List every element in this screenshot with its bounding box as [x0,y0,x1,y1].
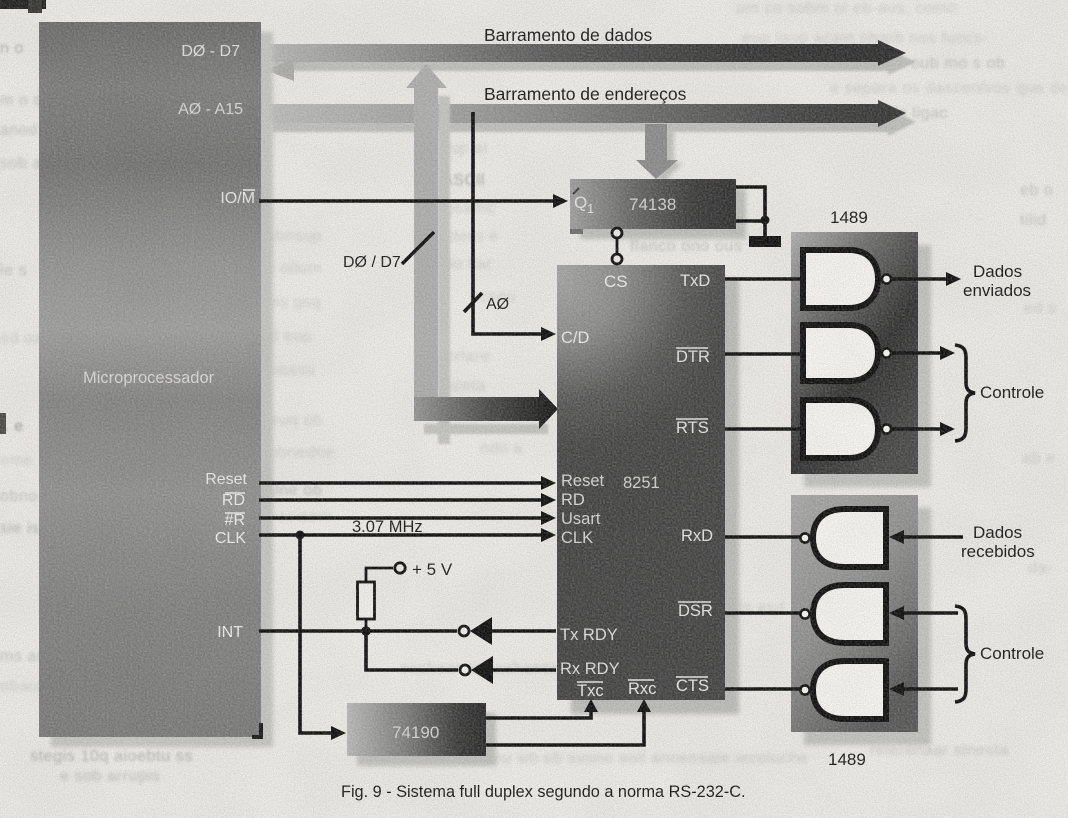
74138 ground wiring [736,187,770,237]
svg-text:+ 5 V: + 5 V [412,560,453,579]
svg-text:8251: 8251 [623,474,660,492]
svg-text:RD: RD [222,492,245,509]
svg-text:RD: RD [561,491,585,509]
wire 74190 to Txc [486,699,598,718]
74190 part number [392,723,439,742]
svg-text:74138: 74138 [629,195,676,214]
D0/D7 bus arm into 8251 with right arrowhead [414,389,558,429]
microprocessor pin label A0-A15 [178,101,243,118]
bus: Barramento de enderecos [262,100,906,127]
74138 part number [629,195,676,214]
svg-text:Txc: Txc [577,682,604,700]
svg-text:1489: 1489 [830,208,868,227]
svg-text:Dados: Dados [973,523,1022,542]
address-bus down arrow into 74138 [636,124,678,179]
svg-text:CS: CS [604,272,628,291]
74190 block shadow [357,713,496,766]
8251 pin label TxD [680,272,710,290]
microprocessor pin label D0-D7 [181,43,240,60]
resistor pull-up [358,582,375,619]
svg-text:3.07 MHz: 3.07 MHz [352,518,423,536]
svg-text:AØ: AØ [486,296,509,313]
label Barramento de enderecos [484,84,687,104]
74138 block shadow [580,189,746,239]
microprocessor pin label RD [222,492,245,509]
figure caption [341,783,746,801]
label 1489 top [830,208,868,227]
svg-text:#R: #R [225,512,245,529]
svg-text:enviados: enviados [963,281,1031,300]
data bus left arrowhead into microprocessor [265,59,294,81]
label Barramento de dados [484,25,653,45]
svg-text:Reset: Reset [561,472,605,490]
wire A0 from address bus to 8251 C/D [473,112,556,341]
receiver gate CTS [800,661,886,719]
microprocessor title [83,369,215,387]
svg-text:CTS: CTS [676,677,709,695]
decoder U-74138 [570,179,736,234]
wire CLK 3.07 MHz [259,518,556,542]
driver gate DTR [803,325,891,381]
wire CLK to 74190 [300,535,346,740]
8251 pin label RD [561,491,585,509]
8251 pin label RxD [681,527,713,545]
driver gate TxD [803,250,891,308]
svg-text:IO/M: IO/M [220,190,255,207]
ground bar [749,236,781,247]
8251 pin label CS [604,272,628,291]
svg-text:Barramento de endereços: Barramento de endereços [484,84,687,104]
wire Dados recebidos into RxD gate [889,530,963,544]
svg-text:Fig. 9 - Sistema full duplex s: Fig. 9 - Sistema full duplex segundo a n… [341,783,746,801]
line driver block 1489 (top) [791,232,918,474]
wire DTR out to brace [891,346,955,360]
svg-text:Rx RDY: Rx RDY [560,660,620,678]
1489 top block shadow [804,245,931,487]
driver gate RTS [803,400,891,458]
wire INT / Tx RDY line [259,629,457,633]
8251 pin label C/D [561,329,590,347]
svg-text:RxD: RxD [681,527,713,545]
8251 pin label Rx RDY [560,660,620,678]
svg-text:recebidos: recebidos [961,542,1035,561]
label Controle bottom [980,644,1044,663]
junction on CLK wire [296,531,305,540]
inverter on Rx RDY [460,656,556,684]
svg-text:TxD: TxD [680,272,710,290]
svg-text:Tx RDY: Tx RDY [560,626,618,644]
microprocessor block [39,22,261,737]
receiver gate DSR [800,585,886,643]
8251 pin label Txc [577,682,604,700]
1489 bottom block shadow [804,508,931,745]
pull-up +5V terminal [366,560,453,582]
svg-text:INT: INT [217,624,243,641]
svg-text:Q: Q [574,193,587,212]
junction dot at resistor bottom [361,619,371,636]
label Controle top [980,383,1044,402]
CS link circles between 74138 and 8251 [612,228,622,264]
svg-text:Barramento de dados: Barramento de dados [484,25,653,45]
left edge tick [0,413,6,434]
svg-text:AØ - A15: AØ - A15 [178,101,243,118]
8251 pin label Usart [561,510,601,528]
svg-text:Usart: Usart [561,510,601,528]
label 1489 bottom [828,750,866,769]
8251 pin label DSR [678,602,713,620]
svg-text:CLK: CLK [215,530,246,547]
74138 pin label Q1 [574,193,594,216]
wire TxD to gate [725,277,801,281]
line receiver block 1489 (bottom) [791,495,918,732]
USART U-8251 [557,265,725,700]
label Dados enviados [963,262,1031,300]
microprocessor bottom-right corner mark [252,723,263,737]
microprocessor pin label Reset [205,471,247,488]
wire Rx RDY branch [366,631,458,670]
receiver gate RxD [800,509,886,567]
svg-text:1489: 1489 [828,750,866,769]
svg-text:DSR: DSR [678,602,713,620]
inverter on Tx RDY [459,617,556,645]
svg-text:Microprocessador: Microprocessador [83,369,215,387]
microprocessor pin label WR [225,512,245,529]
svg-text:DØ / D7: DØ / D7 [343,254,401,271]
brace Controle (top) [955,345,975,441]
wire control into CTS gate [889,682,958,696]
svg-text:Dados: Dados [973,262,1022,281]
wire RD [259,493,556,507]
8251 pin label Reset [561,472,605,490]
wire RTS out to brace [891,422,955,436]
microprocessor pin label IO/M [220,190,255,207]
svg-text:RTS: RTS [676,419,709,437]
8251 pin label CTS [676,677,709,695]
slash and label A0 [464,293,509,313]
top-left corner smudge [0,0,46,13]
svg-text:DØ - D7: DØ - D7 [181,43,240,60]
wire 74190 to Rxc [486,699,651,745]
8251 pin label DTR [676,348,710,366]
svg-text:Controle: Controle [980,644,1044,663]
vertical D0/D7 bus branch shadow [424,96,548,444]
wire control into DSR gate [889,606,958,620]
8251 pin label Rxc [628,680,656,698]
8251 pin label Tx RDY [560,626,618,644]
svg-text:CLK: CLK [561,529,593,547]
wire RTS to gate [725,427,801,431]
svg-text:74190: 74190 [392,723,439,742]
microprocessor pin label CLK [215,530,246,547]
8251 block shadow [571,279,739,714]
8251 pin label CLK [561,529,593,547]
address-bus down arrow into 74138 (shadow) [643,130,683,183]
label Dados recebidos [961,523,1035,561]
svg-text:Rxc: Rxc [628,680,656,698]
address bus shadow [272,109,916,136]
BLEED-THROUGH BACKGROUND TEXT (decorative) [736,0,957,18]
wire RxD from receiver gate [725,535,800,539]
wire IO/M from microprocessor to 74138 [259,194,568,208]
svg-text:Controle: Controle [980,383,1044,402]
wire DSR from receiver gate [725,611,800,615]
svg-text:1: 1 [587,201,594,216]
svg-text:DTR: DTR [676,348,710,366]
wire CTS from receiver gate [725,687,800,691]
8251 part number [623,474,660,492]
svg-text:Reset: Reset [205,471,247,488]
brace Controle (bottom) [955,606,975,702]
vertical D0/D7 bus branch (up arrow into data bus) [406,64,447,421]
counter U-74190 [347,703,486,756]
wire DTR to gate [725,352,801,356]
microprocessor block shadow [51,32,273,747]
svg-text:C/D: C/D [561,329,590,347]
wire Reset [259,476,556,490]
bus: Barramento de dados [262,40,906,66]
slash and label D0/D7 on vertical bus [343,232,434,271]
microprocessor pin label INT [217,624,243,641]
8251 pin label RTS [676,419,709,437]
wire WR to Usart [259,511,556,525]
data bus shadow [272,49,916,75]
wire Dados enviados [891,272,961,286]
